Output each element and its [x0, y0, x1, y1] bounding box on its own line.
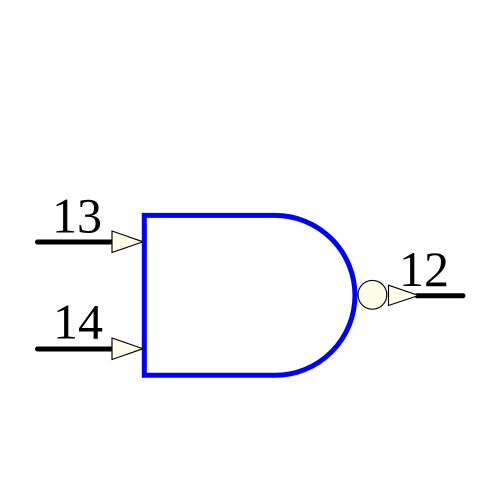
svg-text:13: 13: [52, 188, 102, 244]
svg-text:14: 14: [53, 294, 103, 350]
svg-text:12: 12: [399, 241, 449, 297]
